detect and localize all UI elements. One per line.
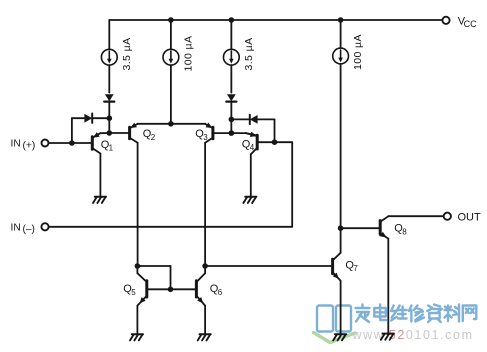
label IN (+) [11,139,36,152]
label Q4 [242,138,255,152]
terminal VCC [442,17,449,24]
diode D2 [84,114,92,123]
transistor Q4 (PNP) [246,132,257,155]
label I3 3.5 uA [243,38,255,71]
node D junction [135,263,141,269]
svg-text:IN: IN [11,139,21,150]
current source I3 3.5uA [223,49,239,65]
svg-text:OUT: OUT [458,212,482,224]
wire right corner down [291,142,293,227]
terminal IN- [41,223,48,230]
wire Q2-Q3 collector link [138,123,206,125]
svg-text:(+): (+) [23,140,36,151]
wire node B1 to node C1 [108,118,110,133]
wire I2 to collectors node [170,65,172,124]
ground below Q1 [93,197,106,203]
wire Q5 emitter down [136,306,138,334]
wire VCC power rail [109,19,442,21]
ground below Q8 [381,334,394,340]
svg-text:6: 6 [218,288,223,297]
label Q7 [345,259,358,273]
node E junction [202,263,208,269]
label OUT [458,212,482,224]
wire rail to I2 [170,20,172,49]
wire Q3 base to node C2 [214,132,231,134]
transistor Q7 [333,253,341,281]
node Q5-Q6 base junction [168,287,174,293]
svg-text:5: 5 [131,288,136,297]
label IN (-) [11,222,35,235]
wire Q5 collector up [136,266,138,273]
node rail-I2 junction [168,17,174,23]
wire Q6 emitter down [204,306,206,334]
transistor Q1 (PNP) [92,132,100,153]
transistor Q5 [137,273,146,305]
current source I1 3.5uA [101,49,117,65]
node Q8 base junction [338,225,344,231]
svg-text:2: 2 [151,133,156,142]
wire D2 to node B1 [92,117,109,119]
transistor Q8 [380,216,389,238]
svg-text:3: 3 [203,133,208,142]
label Q5 [123,283,136,297]
diode D4 [250,115,258,124]
node collectors junction [168,121,174,127]
wire Q5 collector tie top [137,265,170,267]
label I4 100 uA [352,34,364,70]
wire D3 to node B2 [230,102,232,120]
node C1 junction [107,130,113,136]
svg-text:CC: CC [464,19,477,29]
wire node C1 to Q2 base [109,132,128,134]
svg-text:3.5 µA: 3.5 µA [243,38,255,71]
wire Q8 collector to OUT [388,215,443,217]
label VCC [458,15,477,29]
wire I3 to D3 [230,65,232,93]
wire I4 down to Q7 collector [340,64,342,253]
watermark text 家电维修资料网 (stylized) [356,305,477,323]
ground below Q4 [243,197,256,203]
diode D3 [226,94,236,101]
diode D1 [104,94,114,101]
ground below Q6 [198,334,211,340]
label I2 100 uA [182,36,194,72]
wire D4 down to Q4 base node [274,119,276,142]
wire I1 to D1 [108,65,110,93]
transistor Q2 (PNP) [130,123,138,143]
wire node B2 to node C2 [230,119,232,133]
watermark book logo [314,306,356,343]
ground below Q7 [333,334,346,340]
current source I2 100uA [163,49,179,65]
wire IN- line [49,226,293,228]
wire Q5-Q6 base link [148,288,195,290]
node B2 junction [229,117,235,123]
label Q1 [101,139,114,153]
wire node B2 to D4 [231,118,249,120]
wire IN+ node to D2 [72,117,85,119]
svg-text:100 µA: 100 µA [182,36,194,72]
transistor Q3 (PNP) [205,123,213,143]
label Q3 [195,128,208,142]
svg-text:1: 1 [109,144,114,153]
wire Q2 emitter down to node D [137,143,139,266]
wire node C2 to Q4 collector [231,133,256,135]
svg-text:7: 7 [353,264,358,273]
wire Q3 emitter down to node E [204,143,206,266]
wire D4 to corner [258,118,275,120]
ground below Q5 [130,334,143,340]
terminal OUT [444,213,451,220]
current source I4 100uA [333,48,349,64]
svg-text:8: 8 [402,227,407,236]
wire Q5 collector tie down [170,266,172,289]
wire D2 anode down to IN+ line [71,118,73,143]
node Q4 base junction [272,139,278,145]
node B1 junction [107,115,113,121]
wire Q8 base lead [341,227,379,229]
wire Q4 base to right corner [275,141,293,143]
wire rail to I1 [108,20,110,49]
svg-text:4: 4 [250,143,255,152]
label Q2 [143,128,156,142]
wire Q4 emitter down [250,154,252,196]
wire rail to I3 [230,20,232,49]
wire rail to I4 [340,20,342,48]
svg-text:3.5 µA: 3.5 µA [121,38,133,71]
svg-text:(–): (–) [23,224,35,235]
watermark url www.520101.com [352,328,474,342]
label Q8 [394,223,407,237]
wire Q8 emitter down [387,239,389,334]
label I1 3.5 uA [121,38,133,71]
node rail-I3 junction [229,17,235,23]
wire Q7 emitter down [340,281,342,334]
label Q6 [210,283,223,297]
svg-text:IN: IN [11,222,21,233]
wire Q1 emitter down [99,154,101,197]
wire node E to Q7 base [205,265,331,267]
node rail-I4 junction [338,17,344,23]
transistor Q6 [196,273,205,305]
wire D1 to node B1 [108,102,110,119]
wire Q1 collector to node C1 [100,132,109,134]
svg-text:100 µA: 100 µA [352,34,364,70]
wire IN+ to Q1 base [49,142,93,144]
terminal IN+ [42,140,49,147]
wire Q4 base lead [259,141,275,143]
wire Q6 collector up [204,266,206,273]
svg-text:www.520101.com: www.520101.com [352,328,474,342]
node C2 junction [229,130,235,136]
node IN+ junction [69,140,75,146]
